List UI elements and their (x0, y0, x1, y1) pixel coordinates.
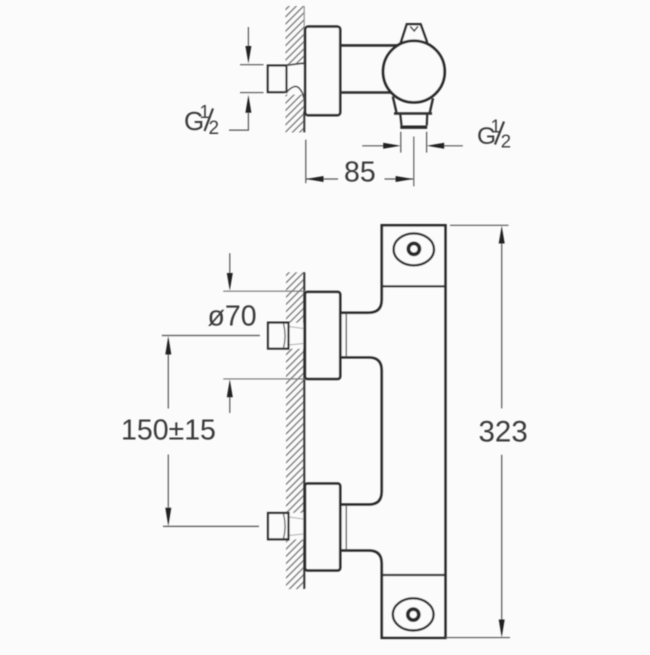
outlet shoulder sides (393, 97, 433, 113)
flange (escutcheon side view) (305, 27, 340, 116)
svg-text:150±15: 150±15 (121, 415, 216, 447)
body silhouette (340, 225, 445, 638)
extension lines of inlet stub (240, 65, 264, 93)
arrowhead down (150+-15) (165, 508, 171, 527)
svg-text:85: 85 (344, 157, 376, 189)
wall gap at upper fitting (285, 323, 304, 349)
dim line 150+-15 (167, 355, 169, 508)
top extension line (323) (450, 224, 509, 226)
taper into wall bottom (287, 86, 304, 98)
arm (340, 45, 398, 92)
arrowhead up (left G1/2) (245, 95, 251, 113)
cap on valve body (401, 24, 428, 43)
cap inner notch (410, 26, 418, 31)
taper into wall top (287, 63, 304, 65)
pipe fitting square (268, 66, 287, 93)
arrowhead right (right G1/2) (383, 143, 401, 149)
arrowhead left (85) (306, 176, 324, 182)
arrowhead left (right G1/2) (427, 143, 445, 149)
arrowhead right (85) (396, 176, 414, 182)
upper flange centerline (150+-15) (162, 335, 260, 337)
flange extension lines (diameter 70) (223, 291, 305, 379)
svg-text:323: 323 (479, 416, 528, 449)
upper fitting hex edge (284, 324, 286, 349)
wall surface line dark segment below flange (303, 112, 305, 133)
upper fitting taper lines (289, 327, 304, 346)
upper flange front (305, 292, 340, 379)
fraction slash (left G1/2) (205, 109, 214, 132)
outlet centerline (413, 137, 415, 187)
valve body circle (383, 41, 445, 103)
upper fitting square (268, 323, 289, 349)
dim line upper (diameter 70) (229, 253, 231, 273)
dim line left (right G1/2) (362, 145, 384, 147)
wall hatch top view (286, 6, 305, 133)
lower flange centerline (150+-15) (163, 525, 259, 527)
wall surface line bottom view (303, 272, 305, 589)
dim line 85 (306, 178, 413, 180)
outlet shoulder crossbar (394, 112, 432, 115)
outlet lower sides (400, 115, 427, 126)
svg-text:ø70: ø70 (208, 301, 257, 333)
svg-text:2: 2 (501, 131, 511, 152)
svg-text:2: 2 (209, 118, 220, 139)
fraction slash (right G1/2) (495, 122, 504, 145)
arrowhead up (diameter 70) (227, 379, 233, 397)
bottom mounting hole outer (393, 598, 434, 630)
lower fitting square (268, 513, 289, 539)
wall surface extension line (85) (305, 140, 307, 184)
step lines (382, 286, 445, 575)
wall pipe gap (285, 65, 305, 95)
neck inner edges (both connections) (345, 314, 347, 550)
bottom extension line (323) (446, 637, 511, 639)
bottom mounting hole screw (408, 609, 419, 620)
leader to label (right G1/2) (444, 145, 463, 147)
outlet bottom rim (400, 125, 427, 128)
dim line lower (diameter 70) (229, 397, 231, 413)
dim line lower + leader to label (left G1/2) (229, 113, 248, 130)
arrowhead down (left G1/2) (245, 46, 251, 64)
top mounting hole screw (408, 243, 419, 254)
arrowhead down (diameter 70) (227, 273, 233, 291)
lower fitting taper lines (289, 517, 304, 536)
top mounting hole outer (394, 233, 434, 265)
arrowhead down (323) (499, 620, 505, 638)
lower fitting hex edge (284, 514, 286, 539)
lower flange front (305, 484, 340, 571)
dim line 323 (501, 244, 503, 620)
arrowhead up (323) (499, 226, 505, 244)
wall surface line (top view) (303, 6, 305, 132)
wall hatch bottom view (286, 272, 304, 589)
arrowhead up (150+-15) (165, 336, 171, 355)
wall gap at lower fitting (285, 513, 304, 539)
extension lines of outlet (right G1/2) (401, 132, 427, 153)
dim line upper (left G1/2) (247, 27, 249, 46)
